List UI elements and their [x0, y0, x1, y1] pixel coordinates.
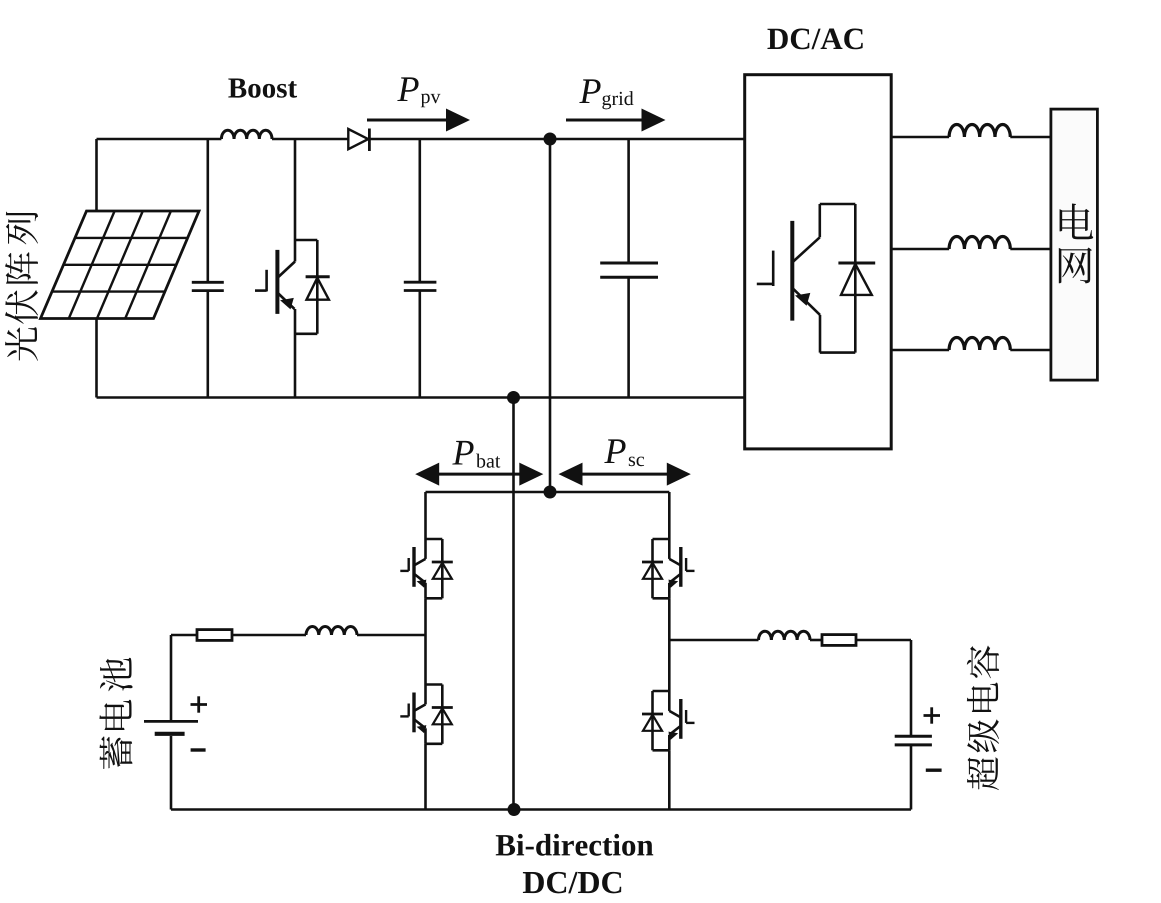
- resistor R_sc: [822, 635, 856, 646]
- inductor Lf3: [949, 338, 1010, 351]
- label P_grid: [579, 79, 600, 103]
- node dot top bus: [544, 133, 557, 146]
- capacitor C3 (DC-link): [600, 139, 658, 398]
- label 电网: [1060, 204, 1094, 240]
- supercap leg bottom wire: [668, 750, 671, 809]
- supercap leg wire: [668, 492, 671, 539]
- supercap plus sign: [924, 714, 941, 717]
- IGBT U2 (inverter) with antiparallel diode: [757, 204, 875, 353]
- label DC/DC: [523, 872, 621, 894]
- battery B1: [144, 635, 198, 810]
- inductor Lf2: [949, 237, 1010, 250]
- battery leg bottom wire: [424, 744, 427, 810]
- label 蓄电池: [99, 658, 132, 769]
- wire bottom bus (upper section): [97, 396, 745, 399]
- wire top DC bus left segment: [97, 138, 222, 141]
- wire bottom bus (lower section): [171, 808, 911, 811]
- IGBT Q1 (boost) with antiparallel diode: [255, 139, 330, 398]
- wire left PV vertical: [95, 139, 98, 398]
- inductor L_bat: [306, 627, 357, 635]
- battery minus sign: [191, 748, 206, 751]
- capacitor C1: [192, 139, 224, 398]
- phase line 2: [891, 248, 949, 251]
- phase line 1: [891, 136, 949, 139]
- label P_bat: [452, 441, 473, 465]
- supercapacitor C_sc: [895, 640, 932, 810]
- label Bi-direction: [496, 834, 653, 856]
- IGBT S1 (battery upper): [400, 539, 453, 598]
- resistor R_bat: [197, 630, 232, 641]
- label 超级电容: [967, 646, 999, 790]
- battery leg wire: [424, 492, 427, 539]
- arrow P_pv: [367, 119, 448, 122]
- battery leg mid wire: [424, 598, 427, 684]
- supercap minus sign: [926, 769, 942, 772]
- PV array panel: [41, 211, 200, 319]
- node dot mid rail: [544, 486, 557, 499]
- IGBT S4 (supercap lower, mirrored): [642, 691, 695, 750]
- capacitor C2: [404, 139, 437, 398]
- battery branch wire: [171, 634, 197, 637]
- node dot bottom: [508, 803, 521, 816]
- phase line 3: [891, 349, 949, 352]
- inverter box DC/AC: [745, 75, 892, 449]
- arrow P_sc (double): [563, 473, 686, 476]
- wire top bus right segment: [369, 138, 744, 141]
- wire DC- drop to bottom bus: [512, 398, 515, 810]
- node dot bottom bus: [507, 391, 520, 404]
- arrow P_bat (double): [420, 473, 539, 476]
- wire top bus mid segment: [272, 138, 348, 141]
- IGBT S2 (battery lower): [400, 685, 453, 744]
- label P_pv: [397, 77, 418, 101]
- supercap leg mid wire: [668, 598, 671, 691]
- inductor Lf1: [949, 125, 1010, 138]
- diode D1: [348, 129, 368, 149]
- label Boost: [228, 79, 297, 98]
- IGBT S3 (supercap upper, mirrored): [642, 539, 695, 598]
- battery plus sign: [191, 703, 208, 706]
- label P_sc: [604, 439, 625, 463]
- label 光伏阵列: [5, 212, 38, 361]
- wire DC+ drop to bi-direction: [549, 139, 552, 492]
- inductor L_sc: [759, 631, 811, 640]
- inductor L1 (boost): [221, 130, 272, 139]
- grid box 电网: [1051, 109, 1098, 380]
- label DC/AC: [767, 28, 862, 49]
- wire top rail of bi-direction legs: [426, 491, 670, 494]
- arrow P_grid: [566, 119, 643, 122]
- supercap branch wire: [669, 639, 758, 642]
